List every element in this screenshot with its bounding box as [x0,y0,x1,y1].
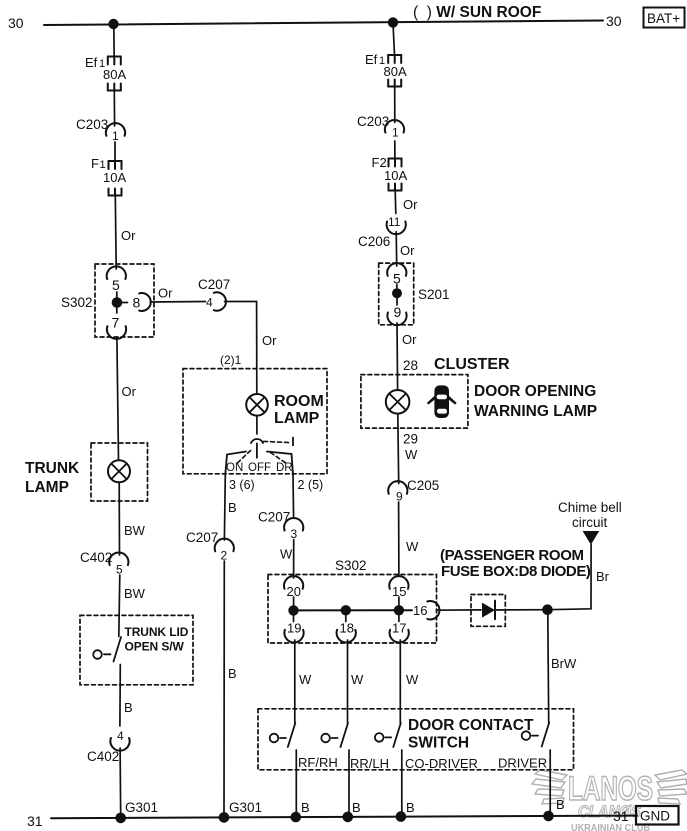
door switch DRIVER [522,723,551,816]
wire: S201 pin 9 to cluster lamp, Or [397,323,417,390]
label DRIVER [498,756,547,771]
connector C207 pin 3 [258,510,303,542]
svg-text:B: B [124,700,133,715]
S302 pin 19 [284,621,303,643]
svg-text:TRUNK: TRUNK [25,460,80,477]
svg-text:Or: Or [262,333,277,348]
ground node RR/LH [343,812,354,823]
label Ef1 [85,55,105,70]
wire: diode to BrW node [505,609,547,611]
svg-text:W: W [405,447,418,462]
S302 pin 7 [107,315,126,339]
connector C207 pin 4 [198,277,230,311]
connector C402 pin 4 [87,729,130,764]
svg-text:C207: C207 [198,277,230,292]
connector C205 pin 9 [388,478,439,504]
svg-text:C206: C206 [358,234,390,249]
terminal BAT+ [644,8,685,28]
svg-text:G301: G301 [229,800,262,815]
label (2)1 [220,353,242,367]
svg-text:Ef: Ef [85,55,98,70]
diode D8 [482,601,505,620]
label CO-DRIVER [405,756,478,771]
svg-text:B: B [556,797,565,812]
wire: node up to chime bell circuit, Br [548,545,610,610]
svg-text:( ) W/ SUN ROOF: ( ) W/ SUN ROOF [413,4,541,21]
label 30 (right) [606,13,622,29]
door warning lamp bulb [386,390,410,414]
svg-text:DOOR OPENING: DOOR OPENING [474,383,596,400]
label F1 [91,156,106,171]
wire: top 30 rail [44,21,603,26]
fuse F2 10A [389,159,402,191]
label B (DRIVER) [556,797,565,812]
wire: S302 pin 8 to C207 pin 4, Or [151,286,206,303]
wire: C207/2 down to ground rail, B [224,561,237,818]
svg-text:B: B [352,800,361,815]
svg-text:UKRAINIAN CLUB: UKRAINIAN CLUB [571,822,650,831]
svg-text:5: 5 [112,277,120,293]
splice box S302 (upper) [95,264,154,337]
svg-text:G301: G301 [125,800,158,815]
label 80A [103,67,126,82]
room lamp bulb [246,394,268,416]
S302 pin 17 [390,621,409,643]
svg-text:OPEN S/W: OPEN S/W [125,640,185,654]
node S302-20/19 [288,605,298,615]
svg-text:(PASSENGER ROOM: (PASSENGER ROOM [440,547,584,564]
splice node S201 [392,285,402,306]
svg-text:80A: 80A [103,67,126,82]
label G301 (trunk) [125,800,158,815]
label 30 (left) [8,15,24,31]
label G301 (room lamp) [229,800,262,815]
svg-text:SWITCH: SWITCH [408,735,469,752]
S302 pin 16 [413,601,439,619]
svg-text:31: 31 [613,808,629,824]
label ROOM LAMP [274,393,324,427]
svg-text:Or: Or [121,228,136,243]
svg-text:GND: GND [640,809,670,824]
connector C206 pin 11 [358,215,406,249]
svg-text:circuit: circuit [572,515,608,530]
wire: pin15 stub [398,597,400,606]
wire: pin20 stub [293,597,295,606]
svg-text:Or: Or [122,384,137,399]
fuse Ef1 80A (left) [108,57,121,91]
wire: C402/4 to ground rail [119,748,122,818]
svg-text:FUSE BOX:D8 DIODE): FUSE BOX:D8 DIODE) [441,563,591,580]
svg-text:BW: BW [124,586,146,601]
label S302 [61,295,93,310]
lamp switch linkage dashes [237,438,293,464]
splice box S302 (lower) [268,575,437,644]
node: battery feed junction (right, sun roof tap) [388,17,398,27]
label B (RF/RH) [301,800,310,815]
svg-text:9: 9 [394,304,402,320]
ground node CO-DRIVER [396,811,407,822]
S302 pin 20 [284,576,303,599]
connector C203 pin 1 (left) [76,117,125,143]
label 31 (right) [613,808,629,824]
car icon (door open indicator) [427,385,457,418]
lamp switch left contact arm (ON) [225,452,246,475]
node S302-15/17 [394,605,404,615]
connector C203 pin 1 (right) [357,114,404,140]
wire: pin17 stub [398,615,400,622]
ground node DRIVER [543,811,554,822]
svg-text:16: 16 [413,603,427,618]
fuse F1 10A [109,161,122,196]
svg-text:W: W [299,672,312,687]
label S302 (lower) [335,558,367,573]
wire: trunk switch to C402 pin 4, B [120,665,133,727]
label DOOR OPENING WARNING LAMP [474,383,597,420]
svg-text:7: 7 [112,315,120,331]
trunk lamp bulb [108,460,130,482]
wire: pin18 stub [345,615,347,622]
ground node RF/RH [291,812,302,823]
svg-text:BW: BW [124,523,146,538]
svg-text:4: 4 [117,729,124,743]
labels ON OFF DR [226,462,293,474]
label DOOR CONTACT SWITCH [408,717,534,752]
svg-text:CLANØS: CLANØS [578,802,642,821]
door switch CO-DRIVER [375,640,402,816]
label B (CO-DRIVER) [406,800,415,815]
watermark: Lanos Ukrainian Club logo [532,770,687,831]
svg-text:TRUNK LID: TRUNK LID [125,625,189,639]
svg-text:C205: C205 [407,478,439,493]
wire: C207/4 right then down to room lamp, Or [225,302,278,395]
svg-text:30: 30 [606,13,622,29]
svg-text:4: 4 [206,296,213,310]
node BrW junction [542,604,553,615]
S201 pin 5 [387,263,406,286]
svg-text:BAT+: BAT+ [647,11,680,26]
wire: bulb to switch pivot [256,416,258,434]
wire: Ef1 to C203 [113,91,115,127]
node: battery feed junction (left) [108,19,118,29]
svg-text:9: 9 [396,490,403,504]
ground node G301 (room lamp) [219,812,230,823]
door contact switch box [258,709,574,770]
svg-text:30: 30 [8,15,24,31]
svg-text:28: 28 [403,358,418,373]
label 80A (right) [384,64,407,79]
splice node S302 [112,292,128,313]
wire: C203 to fuse F2 [394,141,396,159]
S302 pin 15 [389,576,408,599]
wire: node down to driver switch, BrW [548,614,577,723]
splice box S201 [379,263,414,325]
svg-text:2 (5): 2 (5) [298,478,324,492]
splice bus S302 [294,609,413,611]
svg-text:DOOR CONTACT: DOOR CONTACT [408,717,534,734]
door switch RF/RH [270,640,297,817]
wire: C206 to S201 pin 5, Or [396,232,415,266]
diode box (D8) [471,595,505,627]
node S302-18 [341,605,351,615]
wire: DR contact to C207 pin 3 [292,475,295,519]
svg-text:OFF: OFF [248,462,271,474]
trunk lid switch [93,637,121,662]
label F2 [372,155,387,170]
label 28 [403,358,418,373]
label RF/RH [298,755,338,770]
trunk lamp box [91,443,148,501]
fuse Ef1 80A (right) [388,55,401,87]
label (PASSENGER ROOM FUSE BOX:D8 DIODE) [440,547,591,580]
door switch RR/LH [321,640,349,817]
label TRUNK LAMP [25,460,80,496]
S302 pin 18 [337,621,356,643]
label pin 2 (5) [298,478,324,492]
svg-text:C203: C203 [76,117,108,132]
svg-text:80A: 80A [384,64,407,79]
svg-text:B: B [228,666,237,681]
wire: C203 to fuse F1 [114,142,116,161]
svg-text:Br: Br [596,569,610,584]
wire: F1 to S302 pin 5, Or [115,196,136,270]
svg-text:Or: Or [158,286,173,301]
svg-text:S302: S302 [335,558,367,573]
svg-text:B: B [301,800,310,815]
svg-text:DR: DR [276,462,293,474]
svg-text:W: W [406,672,419,687]
wire: C205/9 to S302 pin 15, W [399,502,419,576]
svg-text:RR/LH: RR/LH [350,756,389,771]
connector C207 pin 2 [186,530,234,563]
svg-text:F: F [91,156,99,171]
label Chime bell circuit [558,500,622,530]
cluster box [361,375,468,429]
svg-text:S201: S201 [418,287,450,302]
svg-text:BrW: BrW [551,656,577,671]
svg-text:3 (6): 3 (6) [229,478,255,492]
wire: cluster to C205 pin 9, W [398,414,418,484]
svg-text:19: 19 [287,621,301,636]
svg-text:C402: C402 [87,749,119,764]
svg-text:18: 18 [340,621,354,636]
terminal GND [636,806,679,825]
wire: Ef1 to C203 (right) [394,87,396,123]
wire: rail junction to fuse Ef1 (right) [393,23,395,55]
svg-text:CLUSTER: CLUSTER [434,356,510,373]
svg-text:S302: S302 [61,295,93,310]
lamp switch wiper (OFF position) [256,443,258,457]
ground node G301 (trunk) [115,813,126,824]
trunk lid switch box [80,615,193,684]
wire: trunk lamp to C402 pin 5, BW [119,482,145,555]
svg-text:CO-DRIVER: CO-DRIVER [405,756,478,771]
label RR/LH [350,756,389,771]
label Ef1 (right) [365,52,385,67]
wire: rail to fuse Ef1 [113,24,115,57]
svg-text:10A: 10A [103,170,126,185]
connector C402 pin 5 [80,550,128,577]
svg-text:RF/RH: RF/RH [298,755,338,770]
svg-text:1: 1 [112,129,119,143]
svg-text:C207: C207 [186,530,218,545]
label B (RR/LH) [352,800,361,815]
room lamp box [183,369,327,474]
svg-text:Or: Or [403,197,418,212]
svg-text:Ef: Ef [365,52,378,67]
svg-text:B: B [228,500,237,515]
wire: pin19 stub [293,615,295,622]
label S201 [418,287,450,302]
svg-text:LAMP: LAMP [25,479,69,496]
labels W at door switches [299,672,419,687]
svg-text:LAMP: LAMP [274,410,320,427]
svg-text:ON: ON [226,462,243,474]
svg-text:10A: 10A [384,168,407,183]
svg-text:29: 29 [403,432,418,447]
svg-text:B: B [406,800,415,815]
S302 pin 8 [133,293,151,311]
svg-text:17: 17 [392,621,406,636]
wire: C207/3 to S302 pin 20, W [280,540,294,579]
svg-text:11: 11 [388,215,401,229]
svg-text:31: 31 [27,813,43,829]
svg-text:Or: Or [402,332,417,347]
label CLUSTER [434,356,510,373]
svg-text:8: 8 [133,295,141,311]
label 10A (right) [384,168,407,183]
label 10A [103,170,126,185]
lamp switch right contact arm (DR) [267,452,293,475]
svg-text:1: 1 [392,126,399,140]
svg-text:(2)1: (2)1 [220,353,242,367]
svg-text:Chime bell: Chime bell [558,500,622,515]
wire: C402/5 to trunk switch, BW [119,575,146,637]
wire: S302 pin 7 down to trunk lamp, Or [117,338,137,460]
svg-text:ROOM: ROOM [274,393,324,410]
svg-text:WARNING LAMP: WARNING LAMP [474,403,597,420]
lamp switch pivot arc [251,439,263,443]
label pin 3 (6) [229,478,255,492]
svg-text:W: W [406,539,419,554]
svg-text:DRIVER: DRIVER [498,756,547,771]
wire: ON contact to C207 pin 2, B [224,475,236,541]
label 29 [403,432,418,447]
wire: ground 31 rail [51,816,637,819]
svg-text:W: W [351,672,364,687]
wire: S302 pin 16 to diode [438,609,482,611]
wire: F2 to C206 pin 11, Or [395,191,418,214]
label ( ) W/ SUN ROOF [413,4,541,21]
svg-text:W: W [280,547,293,562]
svg-text:Or: Or [400,243,415,258]
off-page arrow to chime bell [583,531,600,545]
S302 pin 5 [107,266,126,293]
label 31 (left) [27,813,43,829]
svg-text:C402: C402 [80,550,112,565]
S201 pin 9 [387,304,406,325]
label TRUNK LID OPEN S/W [125,625,189,654]
